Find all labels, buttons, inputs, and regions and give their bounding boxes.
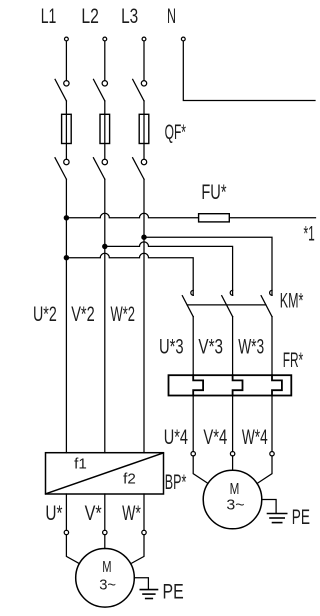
svg-text:FR*: FR* [283,349,304,372]
svg-text:3~: 3~ [226,497,244,514]
svg-text:V*2: V*2 [71,303,95,326]
svg-text:U*4: U*4 [164,426,188,449]
svg-text:M: M [102,559,111,576]
svg-text:KM*: KM* [280,290,304,313]
svg-text:W*3: W*3 [238,336,264,359]
svg-text:3~: 3~ [99,577,116,594]
svg-text:PE: PE [163,579,184,603]
svg-text:L3: L3 [121,5,138,28]
svg-text:W*4: W*4 [242,426,268,449]
svg-text:f2: f2 [123,470,136,487]
svg-text:*1: *1 [304,223,315,246]
svg-text:L1: L1 [41,5,57,28]
svg-text:U*2: U*2 [33,303,57,326]
svg-text:BP*: BP* [165,471,187,494]
svg-text:V*4: V*4 [203,426,227,449]
svg-text:W*: W* [122,502,141,525]
svg-text:N: N [167,5,176,28]
svg-text:W*2: W*2 [111,303,136,326]
svg-text:f1: f1 [74,455,87,472]
svg-text:PE: PE [292,505,310,529]
svg-text:QF*: QF* [165,121,186,144]
svg-text:U*: U* [45,502,62,525]
svg-text:FU*: FU* [201,181,226,204]
svg-text:V*: V* [85,502,102,525]
svg-text:V*3: V*3 [198,336,223,359]
svg-text:L2: L2 [81,5,99,28]
svg-text:U*3: U*3 [159,336,184,359]
